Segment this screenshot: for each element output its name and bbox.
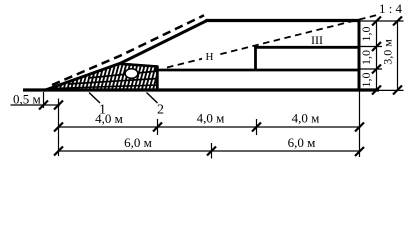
vtick 1,0 top xyxy=(372,17,381,26)
right extension line xyxy=(359,92,361,158)
top extension line xyxy=(359,20,404,22)
leader 2 line xyxy=(147,93,158,104)
label H mask xyxy=(202,50,219,62)
vtick 3,0 bottom xyxy=(393,86,402,95)
layer 2 top line xyxy=(255,46,360,49)
svg-text:0,5 м: 0,5 м xyxy=(13,92,41,107)
hatch course line c xyxy=(52,85,158,89)
hatch course line a xyxy=(88,71,158,78)
design slope dashed line xyxy=(52,15,204,85)
tick 0,5 left xyxy=(39,101,48,110)
vert dim line 3,0 chain xyxy=(397,21,399,90)
svg-text:1,0: 1,0 xyxy=(359,27,373,42)
svg-text:III: III xyxy=(311,33,323,47)
row1 tick d xyxy=(355,123,364,132)
left extension line xyxy=(58,99,60,157)
row2 tick a xyxy=(54,147,63,156)
svg-text:1,0: 1,0 xyxy=(359,50,373,65)
row1 tick a xyxy=(54,123,63,132)
existing bank top line xyxy=(119,64,158,67)
vert dim line 1,0 chain xyxy=(376,21,378,90)
vtick 3,0 top xyxy=(393,17,402,26)
row1 mid extension c xyxy=(256,119,258,135)
svg-text:1 : 4: 1 : 4 xyxy=(379,1,403,16)
layer 1 top line xyxy=(154,69,359,72)
svg-text:Н: Н xyxy=(206,51,214,63)
vtick 1,0 bottom xyxy=(372,86,381,95)
row2 mid extension xyxy=(211,143,213,159)
H design line dashed 1:4 xyxy=(167,15,378,68)
svg-text:2: 2 xyxy=(157,103,164,118)
leader 1 line xyxy=(89,93,100,104)
existing bank hatch fill xyxy=(44,60,158,92)
svg-text:1,0: 1,0 xyxy=(359,73,373,88)
row1 tick b xyxy=(153,123,162,132)
dim 0,5 line xyxy=(11,104,61,106)
row1 dim line xyxy=(59,126,360,128)
svg-text:4,0 м: 4,0 м xyxy=(95,111,123,126)
vtick 1,0 mid1 xyxy=(372,42,381,51)
svg-text:4,0 м: 4,0 м xyxy=(197,111,225,126)
embankment slope line xyxy=(44,21,207,91)
layer 2 step xyxy=(254,46,257,71)
hatch course line b xyxy=(68,79,158,85)
row2 dim line xyxy=(59,150,360,152)
toe extension line xyxy=(43,92,45,108)
tick 0,5 right xyxy=(54,101,63,110)
row2 tick b xyxy=(207,147,216,156)
svg-text:4,0 м: 4,0 м xyxy=(292,111,320,126)
layer1 extension line xyxy=(359,68,382,70)
existing bank right edge xyxy=(156,66,159,92)
row2 tick c xyxy=(355,147,364,156)
embankment right face xyxy=(358,19,361,91)
layer2 extension line xyxy=(359,46,382,48)
svg-text:3,0 м: 3,0 м xyxy=(381,39,395,65)
svg-text:6,0 м: 6,0 м xyxy=(124,135,152,150)
ground line xyxy=(23,88,379,91)
vtick 1,0 mid2 xyxy=(372,65,381,74)
svg-text:6,0 м: 6,0 м xyxy=(288,135,316,150)
hatch oval void xyxy=(125,69,138,79)
row1 mid extension b xyxy=(157,119,159,135)
row1 tick c xyxy=(252,123,261,132)
embankment top line xyxy=(206,19,360,22)
